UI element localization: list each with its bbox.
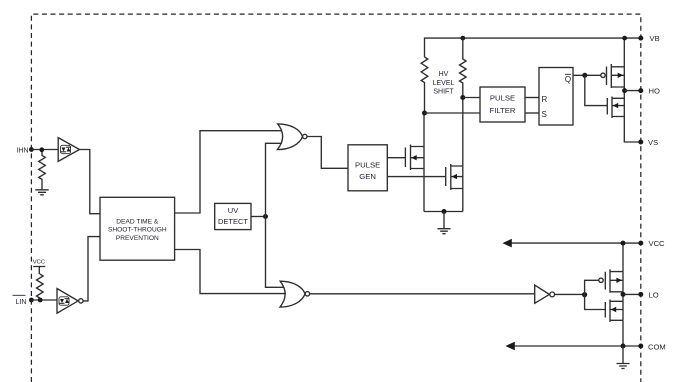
svg-text:IHN: IHN [16, 147, 28, 154]
wire Q3 drain to HO node [623, 87, 625, 91]
wire U3 output to Q5 gate [585, 280, 599, 294]
pin label LIN with overline [13, 295, 27, 306]
wire NOR1 output to pulse gen [307, 137, 348, 169]
wire R4 node to pulse filter [463, 97, 480, 99]
node R4 top dot [460, 36, 465, 41]
wire COM rail with arrow [505, 342, 640, 351]
pin label IHN [16, 147, 28, 154]
transistor Q1 level-shift NMOS [405, 145, 424, 171]
wire Q4 drain to HO node [623, 91, 625, 99]
node latch output dot [582, 73, 587, 78]
wire U3 output to Q6 gate [585, 295, 606, 310]
ground G3 [617, 346, 630, 369]
node COM junction dot [621, 344, 626, 349]
svg-text:SHOOT-THROUGH: SHOOT-THROUGH [108, 227, 167, 234]
wire UV detect output [251, 216, 266, 218]
svg-text:VCC: VCC [33, 260, 45, 266]
transistor Q5 low-side PMOS [599, 269, 623, 293]
wire VCC rail with arrow [502, 239, 640, 248]
gate NOR1 high-side [277, 124, 307, 150]
wire VB top rail [425, 38, 641, 57]
svg-text:LIN: LIN [16, 299, 27, 306]
node LIN junction dot [38, 298, 43, 303]
node source rail dot [442, 209, 447, 214]
pin VS dot [638, 140, 643, 145]
wire dead-time top output to NOR1 [175, 131, 282, 213]
svg-text:LO: LO [649, 291, 659, 300]
pin label HO [649, 87, 660, 96]
pin COM dot [638, 344, 643, 349]
wire level-shift source rail [424, 211, 463, 213]
wire HO output [625, 90, 641, 92]
block dead-time & shoot-through prevention [100, 197, 175, 260]
pin VB dot [638, 36, 643, 41]
wire pulse gen output to Q2 gate [387, 176, 445, 178]
wire Q1 drain to R3 [423, 113, 425, 147]
svg-text:PREVENTION: PREVENTION [116, 235, 159, 242]
svg-text:UV: UV [228, 206, 238, 215]
transistor Q6 low-side NMOS [605, 300, 623, 323]
inverter U3 low-side driver [535, 285, 555, 303]
label HV level shift [433, 71, 455, 96]
transistor Q2 level-shift NMOS [446, 164, 463, 190]
svg-text:HV: HV [439, 71, 449, 78]
svg-text:PULSE: PULSE [355, 160, 380, 169]
block pulse filter [480, 87, 525, 122]
wire U1 output to dead-time block [80, 150, 101, 214]
latch U4 SR flip-flop [539, 68, 573, 126]
node UV junction dot [263, 214, 268, 219]
svg-text:PULSE: PULSE [490, 94, 515, 103]
transistor Q3 high-side PMOS [601, 64, 625, 88]
svg-text:DEAD TIME &: DEAD TIME & [116, 219, 159, 226]
wire Q6 drain to LO node [622, 294, 624, 301]
node R4 bottom dot [460, 95, 465, 100]
resistor R1 IHN pulldown [39, 152, 46, 189]
svg-text:GEN: GEN [359, 172, 376, 181]
ground G1 [35, 190, 48, 195]
wire pulse gen output to Q1 gate [387, 157, 405, 159]
wire Q6 source to COM rail [622, 320, 624, 346]
gate NOR2 low-side [280, 281, 310, 307]
block UV detect [215, 203, 251, 229]
resistor R4 HV level shift [459, 38, 466, 97]
wire dead-time bottom output to NOR2 [175, 250, 286, 294]
wire U2 output to dead-time block [83, 237, 100, 301]
node R3 bottom dot [422, 111, 427, 116]
svg-text:DETECT: DETECT [218, 217, 248, 226]
transistor Q4 high-side NMOS [607, 97, 624, 119]
pin label VCC [649, 239, 666, 248]
svg-text:VS: VS [648, 138, 658, 147]
svg-text:VCC: VCC [649, 239, 666, 248]
wire Q2 drain to R4 [462, 98, 464, 167]
wire UV riser to NOR1 lower input [266, 143, 283, 216]
wire LO output [623, 293, 641, 295]
wire LIN input [31, 299, 57, 301]
buffer U1 input stage [58, 138, 79, 162]
node IHN junction dot [39, 147, 44, 152]
wire latch output [573, 74, 601, 76]
svg-text:Q: Q [565, 75, 571, 84]
wire latch output to Q4 gate [585, 75, 608, 105]
node IHN pin dot [29, 147, 34, 152]
node LIN pin dot [29, 298, 34, 303]
inverter U2 input stage [57, 289, 83, 314]
block pulse gen [348, 145, 387, 191]
wire Q2 source to common rail [462, 189, 464, 212]
pin label VS [648, 138, 658, 147]
wire NOR2 output to inverter U3 [310, 293, 535, 295]
wire pulse filter to latch R [525, 97, 539, 99]
node LO junction dot [621, 292, 626, 297]
svg-text:S: S [542, 110, 547, 119]
ground G2 [438, 212, 451, 234]
svg-text:LEVEL: LEVEL [433, 80, 455, 87]
wire pulse filter to latch S [525, 112, 539, 114]
wire IHN input [31, 149, 58, 151]
pin label COM [648, 342, 666, 351]
pin VCC dot [638, 241, 643, 246]
node HO junction dot [622, 88, 627, 93]
node U3 output dot [582, 292, 587, 297]
pin label VB [650, 34, 660, 43]
wire Q1 source to common rail [423, 169, 425, 212]
wire UV riser to NOR2 upper input [266, 217, 285, 288]
wire Q5 source to VCC rail [622, 243, 624, 272]
supply symbol VCC for LIN pull-up [33, 260, 46, 275]
resistor R2 LIN pull-up [37, 274, 44, 300]
pin HO dot [638, 88, 643, 93]
pin label LO [649, 291, 659, 300]
wire Q3 source to VB rail [623, 38, 625, 67]
wire U3 output [555, 293, 585, 295]
svg-text:FILTER: FILTER [490, 106, 516, 115]
node VCC junction dot [621, 241, 626, 246]
svg-text:SHIFT: SHIFT [433, 89, 454, 96]
pin LO dot [638, 292, 643, 297]
svg-text:COM: COM [648, 342, 666, 351]
resistor R3 HV level shift [421, 57, 428, 113]
svg-text:R: R [542, 95, 548, 104]
wire R3 node to pulse filter [425, 112, 481, 114]
svg-text:VB: VB [650, 34, 660, 43]
svg-text:HO: HO [649, 87, 660, 96]
node VB riser dot [622, 36, 627, 41]
wire Q5 drain to LO node [622, 292, 624, 295]
wire Q4 source to VS [624, 117, 641, 143]
